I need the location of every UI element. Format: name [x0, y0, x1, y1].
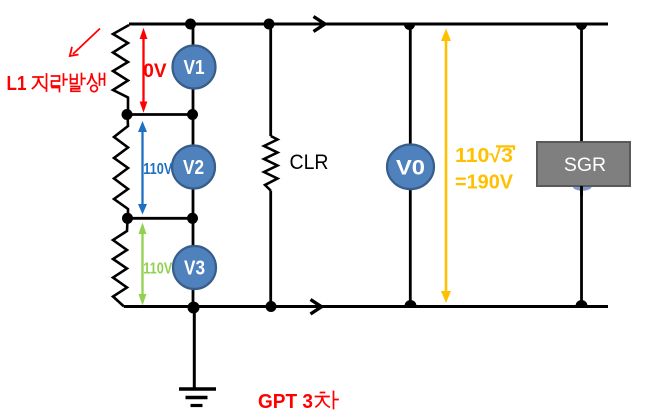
svg-text:V0: V0	[396, 155, 425, 179]
svg-text:V3: V3	[184, 257, 205, 280]
svg-text:V1: V1	[184, 56, 205, 79]
svg-text:SGR: SGR	[564, 154, 606, 176]
svg-text:0V: 0V	[143, 61, 167, 82]
svg-text:CLR: CLR	[290, 151, 329, 174]
svg-text:=190V: =190V	[455, 172, 514, 194]
svg-text:110V: 110V	[143, 161, 172, 178]
svg-text:L1: L1	[7, 72, 27, 95]
svg-text:110V: 110V	[143, 260, 172, 277]
svg-text:V2: V2	[183, 156, 204, 179]
svg-text:110√3: 110√3	[455, 145, 513, 167]
svg-text:GPT 3: GPT 3	[258, 390, 313, 413]
